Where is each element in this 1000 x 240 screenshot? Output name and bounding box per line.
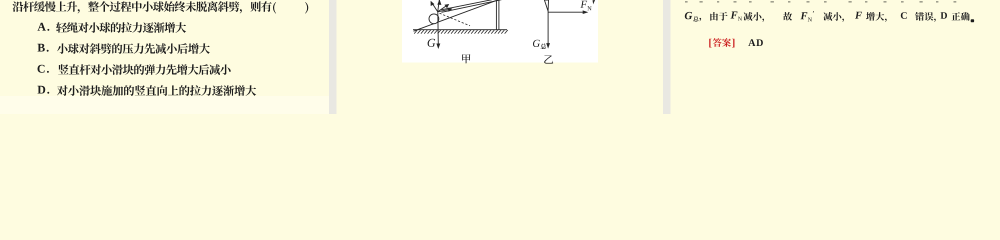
figure jia ball	[429, 14, 439, 24]
figure yi caption	[544, 55, 553, 63]
figure yi top triangle	[544, 0, 548, 11]
expl period	[971, 19, 974, 22]
answer label red	[709, 38, 734, 47]
expl cuowu,	[915, 12, 936, 22]
figure yi FN arrowhead	[583, 10, 589, 14]
option A text	[56, 22, 186, 33]
option B text	[57, 43, 210, 54]
figure jia upward force arrowhead	[437, 0, 441, 5]
expl zengda,	[866, 12, 887, 22]
figure jia vertical rod	[496, 0, 499, 30]
option D text	[57, 85, 256, 96]
expl gu	[783, 12, 792, 21]
option B letter	[38, 44, 49, 52]
column separator 2	[663, 0, 671, 114]
figure white panel	[402, 0, 598, 63]
expl F	[855, 12, 862, 19]
figure jia up-right shallow force arrow	[438, 9, 451, 12]
figure yi FN arrow line	[548, 11, 585, 13]
option C text	[58, 64, 230, 75]
figure yi label FN prime	[592, 0, 595, 4]
figure jia weight line	[437, 12, 440, 45]
figure jia caption	[462, 54, 470, 63]
figure jia dashed normal direction	[440, 13, 471, 26]
expl youyu	[710, 12, 727, 21]
expl zhengque	[952, 12, 970, 21]
figure jia up-left force arrow	[431, 2, 438, 12]
question line 1 parens	[273, 2, 308, 14]
expl G-zong,	[685, 12, 701, 22]
expl jianxiao,2	[823, 12, 844, 22]
expl FN prime	[801, 11, 814, 21]
figure jia up-right steep arrowhead	[444, 4, 449, 8]
figure jia up-left force arrowhead	[431, 1, 435, 6]
answer AD	[748, 39, 763, 46]
figure jia up-right shallow arrowhead	[448, 8, 453, 12]
figure yi label FN	[580, 1, 591, 11]
figure yi G arrowhead	[546, 43, 550, 49]
clipped text line remnant at top	[685, 1, 956, 3]
expl D	[941, 12, 948, 19]
figure jia ground line	[413, 29, 507, 31]
figure jia ground hatching	[414, 30, 508, 34]
figure jia incline surface	[414, 0, 500, 31]
figure jia weight arrowhead	[436, 44, 440, 50]
figure yi label G-zong	[533, 40, 546, 49]
expl C	[901, 12, 907, 19]
background soft glow left-bottom	[0, 96, 330, 114]
figure yi vertical line	[547, 11, 549, 44]
question line 1	[13, 1, 272, 13]
figure jia label G	[428, 39, 436, 47]
figure jia up-right steep force arrow	[438, 5, 448, 12]
option D letter	[38, 86, 50, 94]
expl jianxiao,1	[744, 12, 765, 22]
option A letter	[38, 23, 50, 31]
figure jia upward force line	[438, 0, 440, 12]
column separator 1	[329, 0, 337, 114]
figure jia slanted rod double line	[441, 0, 501, 12]
expl FN	[731, 12, 742, 21]
option C letter	[38, 65, 49, 73]
